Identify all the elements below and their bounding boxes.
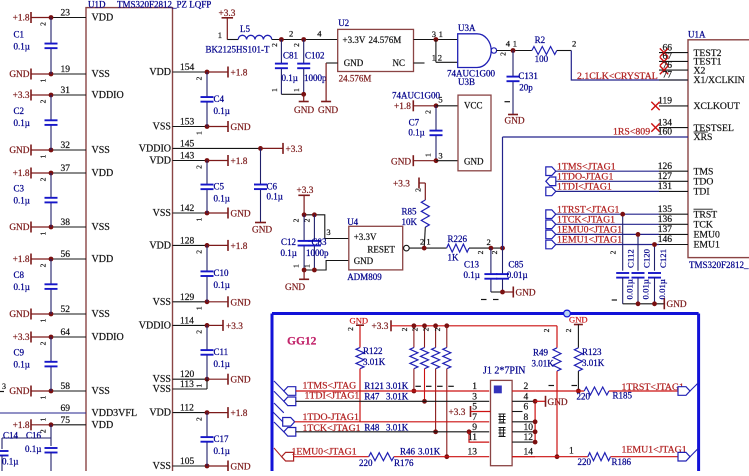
svg-text:VSS: VSS: [92, 309, 110, 320]
capacitor C85 0.01u: [502, 248, 504, 274]
svg-text:2: 2: [609, 250, 618, 254]
resistor R185 220: [584, 387, 609, 395]
wire oscillator input net: [272, 39, 338, 41]
capacitor C83 1000p: [313, 215, 315, 241]
svg-text:3: 3: [2, 382, 6, 391]
no-connect X mark: [660, 66, 668, 74]
pin 77 X1/XCLKIN of U1A: [659, 79, 688, 81]
svg-text:U1A: U1A: [688, 29, 706, 39]
svg-text:C10: C10: [214, 268, 230, 278]
svg-text:GND: GND: [231, 376, 251, 386]
sheet symbol GG12 border: [272, 312, 699, 315]
svg-text:4: 4: [317, 29, 322, 39]
svg-text:TDI: TDI: [694, 187, 710, 198]
port TDI inside GG12: [274, 391, 284, 401]
ground symbol for C131: [508, 114, 518, 116]
svg-text:C14: C14: [3, 431, 19, 441]
svg-text:20p: 20p: [519, 83, 533, 93]
pin 134 TESTSEL of U1A: [659, 127, 688, 129]
svg-text:C120: C120: [642, 248, 652, 268]
svg-text:VSS: VSS: [153, 122, 171, 133]
wire R226 to XRS node: [469, 247, 503, 249]
svg-text:C11: C11: [214, 347, 229, 357]
svg-text:GND: GND: [516, 289, 536, 299]
svg-text:R123: R123: [582, 347, 602, 357]
svg-text:VDD: VDD: [149, 240, 171, 251]
svg-text:VDDIO: VDDIO: [92, 332, 124, 343]
svg-text:VSS: VSS: [153, 461, 171, 471]
power symbol +1.8: [30, 168, 32, 179]
svg-text:C85: C85: [508, 259, 524, 269]
resistor R47 3.01K pullup: [422, 323, 427, 328]
svg-text:R226: R226: [448, 234, 468, 244]
svg-text:+1.8: +1.8: [231, 69, 248, 79]
resistor R226 1K: [447, 244, 469, 252]
svg-text:2: 2: [346, 327, 355, 331]
svg-text:VDDIO: VDDIO: [92, 90, 124, 101]
svg-text:R47: R47: [364, 391, 380, 401]
svg-text:58: 58: [61, 382, 71, 392]
svg-text:U1D: U1D: [88, 0, 106, 10]
svg-text:1: 1: [39, 154, 48, 158]
capacitor C10 0.1u: [206, 245, 208, 271]
svg-text:GND: GND: [231, 298, 251, 308]
svg-text:1: 1: [39, 318, 48, 322]
svg-text:2: 2: [195, 76, 204, 80]
capacitor C16 0.1u: [50, 425, 52, 446]
pin 38 VSS of U1D: [31, 226, 51, 228]
svg-text:C16: C16: [26, 431, 42, 441]
wire jtag net: [556, 180, 659, 182]
svg-text:127: 127: [658, 172, 673, 182]
svg-text:VDD3VFL: VDD3VFL: [92, 408, 138, 419]
svg-text:C131: C131: [518, 71, 538, 81]
svg-text:C12: C12: [281, 237, 296, 247]
svg-text:U4: U4: [347, 217, 358, 227]
IC U1A TMS320F2812: [688, 40, 749, 258]
pin 160 XRS of U1A: [659, 136, 688, 138]
svg-text:126: 126: [658, 162, 673, 172]
svg-text:VSS: VSS: [92, 145, 110, 156]
svg-text:7: 7: [472, 413, 477, 423]
svg-text:R49: R49: [533, 347, 549, 357]
power symbol GND: [227, 374, 229, 385]
svg-text:2: 2: [542, 328, 551, 332]
svg-text:24.576M: 24.576M: [369, 35, 402, 45]
no-connect X mark: [651, 102, 659, 110]
svg-text:GND: GND: [252, 226, 272, 236]
wire TCK row to J1 pin9: [296, 431, 489, 433]
svg-text:0.1µ: 0.1µ: [214, 446, 230, 456]
no-connect X mark: [651, 123, 659, 131]
wire U2 output to gate inputs: [414, 39, 458, 41]
svg-text:C9: C9: [14, 348, 25, 358]
pin 67 TEST1 of U1A: [659, 60, 688, 62]
chinese text inside J1: [499, 414, 506, 423]
port TMS JTAG1: [546, 167, 556, 176]
svg-text:131: 131: [658, 182, 673, 192]
svg-text:GND: GND: [294, 106, 314, 116]
svg-text:+1.8: +1.8: [231, 157, 248, 167]
svg-text:C83: C83: [312, 237, 328, 247]
wire TMS row to J1 pin1: [296, 390, 489, 392]
svg-text:2: 2: [420, 237, 424, 247]
svg-text:1: 1: [39, 417, 48, 421]
svg-text:VDD: VDD: [92, 168, 114, 179]
reset supervisor U4 ADM809: [349, 226, 403, 270]
svg-text:3.01K: 3.01K: [386, 391, 409, 401]
svg-text:+3.3: +3.3: [449, 408, 466, 418]
power symbol +1.8: [227, 240, 229, 251]
svg-text:VDD: VDD: [149, 408, 171, 419]
resistor R2 100: [532, 47, 557, 55]
svg-text:GND: GND: [667, 300, 687, 310]
svg-text:R48: R48: [364, 423, 380, 433]
svg-text:+3.3V: +3.3V: [343, 35, 366, 45]
svg-text:220: 220: [578, 457, 592, 467]
U2 NC stub: [414, 62, 425, 64]
svg-text:+3.3: +3.3: [393, 180, 410, 190]
svg-text:0.1µ: 0.1µ: [281, 248, 297, 258]
svg-text:GND: GND: [9, 146, 29, 156]
no-connect X mark: [660, 57, 668, 65]
svg-text:136: 136: [658, 215, 673, 225]
capacitor C4 0.1u: [206, 72, 208, 97]
svg-text:11: 11: [468, 433, 477, 443]
resistor R122 3.01K: [359, 325, 361, 347]
svg-text:2: 2: [289, 29, 293, 39]
svg-text:2: 2: [195, 330, 204, 334]
pin 32 VSS of U1D: [31, 149, 51, 151]
svg-text:2: 2: [411, 327, 420, 331]
svg-text:C102: C102: [305, 50, 325, 60]
svg-text:L5: L5: [240, 24, 250, 34]
pin 64 VDDIO of U1D: [31, 336, 51, 338]
svg-text:3.01K: 3.01K: [418, 447, 441, 457]
svg-text:0.1µ: 0.1µ: [282, 73, 298, 83]
wire EMU1 row J1 pin14 to R186: [512, 456, 588, 458]
power symbol GND: [30, 386, 32, 397]
svg-text:135: 135: [658, 205, 673, 215]
pin 37 VDD of U1D: [31, 172, 51, 174]
svg-text:VCC: VCC: [464, 101, 483, 111]
no-connect X mark: [660, 48, 668, 56]
svg-text:146: 146: [658, 235, 673, 245]
svg-text:+3.3: +3.3: [13, 91, 30, 101]
svg-text:0.01µ: 0.01µ: [507, 270, 528, 280]
U2 GND pin wire and ground: [326, 62, 338, 64]
svg-text:3.01K: 3.01K: [386, 381, 409, 391]
svg-text:GND: GND: [231, 123, 251, 133]
svg-text:2: 2: [433, 327, 442, 331]
svg-text:2: 2: [39, 177, 48, 181]
svg-text:0.1µ: 0.1µ: [25, 444, 41, 454]
power symbol +1.8: [227, 407, 229, 418]
wire TRST row J1 pin2 to R185: [535, 390, 584, 392]
svg-text:+1.8: +1.8: [231, 409, 248, 419]
svg-text:+1.8: +1.8: [394, 102, 411, 112]
svg-text:1EMU1<JTAG1: 1EMU1<JTAG1: [622, 445, 687, 456]
svg-text:2: 2: [39, 99, 48, 103]
svg-text:ADM809: ADM809: [347, 272, 382, 282]
power symbol GND: [30, 69, 32, 80]
svg-text:1: 1: [292, 88, 301, 92]
svg-text:2: 2: [292, 43, 301, 47]
wire reset output: [409, 247, 446, 249]
pin 119 XCLKOUT of U1A: [659, 105, 688, 107]
wire XRS net to pin160: [503, 136, 689, 138]
capacitor C120 0.01u: [637, 234, 639, 270]
svg-text:3: 3: [438, 150, 442, 160]
wire caps gnd rail: [491, 291, 503, 293]
svg-text:GND: GND: [9, 70, 29, 80]
pin 76 X2 of U1A: [659, 69, 688, 71]
svg-text:2: 2: [487, 237, 491, 247]
svg-text:1: 1: [270, 88, 279, 92]
wire jtag net: [556, 190, 659, 192]
power symbol +1.8: [227, 155, 229, 166]
gate output wire: [497, 50, 532, 52]
capacitor C112 0.01u: [622, 214, 624, 271]
svg-text:R85: R85: [402, 207, 418, 217]
resistor R85 10K: [421, 200, 429, 227]
pin 127 TDO of U1A: [659, 180, 688, 182]
svg-text:1: 1: [195, 131, 204, 135]
svg-text:C13: C13: [464, 259, 480, 269]
ground symbol for C81/C102: [303, 94, 305, 101]
power symbol GND: [227, 296, 229, 307]
svg-text:C17: C17: [214, 434, 230, 444]
svg-text:74AUC1G00: 74AUC1G00: [392, 90, 441, 100]
power symbol GND: [30, 145, 32, 156]
svg-text:6: 6: [524, 403, 529, 413]
svg-text:U3A: U3A: [458, 23, 476, 33]
svg-text:0.1µ: 0.1µ: [14, 118, 30, 128]
wire caps gnd rail: [623, 303, 665, 305]
svg-text:EMU1: EMU1: [694, 240, 721, 251]
capacitor C8 0.1u: [50, 259, 52, 284]
svg-text:56: 56: [61, 250, 71, 260]
svg-text:137: 137: [658, 225, 673, 235]
svg-text:1TDI<JTAG1: 1TDI<JTAG1: [305, 391, 360, 402]
svg-text:37: 37: [61, 164, 71, 174]
svg-text:0.1µ: 0.1µ: [408, 128, 424, 138]
svg-text:3: 3: [472, 392, 477, 402]
ground symbol J1 pin4: [535, 400, 545, 402]
svg-text:100: 100: [535, 54, 549, 64]
svg-text:0.01µ: 0.01µ: [657, 279, 667, 299]
svg-text:2: 2: [39, 263, 48, 267]
svg-text:3.01K: 3.01K: [363, 357, 386, 367]
svg-text:VDD: VDD: [92, 420, 114, 431]
capacitor C17 0.1u: [206, 413, 208, 437]
svg-text:X1/XCLKIN: X1/XCLKIN: [694, 75, 745, 86]
svg-text:2: 2: [39, 22, 48, 26]
resistor R186 220: [588, 453, 611, 461]
svg-text:0.01µ: 0.01µ: [625, 279, 635, 299]
svg-text:64: 64: [61, 328, 71, 338]
power symbol GND: [227, 208, 229, 219]
svg-text:1: 1: [303, 264, 312, 268]
svg-text:GND: GND: [285, 283, 305, 293]
pin 31 VDDIO of U1D: [31, 94, 51, 96]
svg-text:2: 2: [499, 52, 508, 56]
svg-text:1K: 1K: [448, 253, 460, 263]
wire jtag net: [556, 244, 659, 246]
ground symbol for C12/C83: [303, 270, 305, 279]
svg-text:VSS: VSS: [92, 69, 110, 80]
diagonal to border: [690, 383, 699, 392]
svg-text:1: 1: [513, 39, 517, 49]
svg-text:GND: GND: [9, 387, 29, 397]
svg-text:2: 2: [39, 341, 48, 345]
svg-text:2.1CLK<CRYSTAL: 2.1CLK<CRYSTAL: [577, 71, 658, 82]
svg-text:1: 1: [426, 237, 430, 247]
resistor R46 3.01K pullup: [444, 323, 449, 328]
svg-text:1: 1: [218, 30, 222, 40]
svg-text:VSS: VSS: [92, 222, 110, 233]
wire jtag net: [556, 233, 659, 235]
svg-text:0.1µ: 0.1µ: [14, 282, 30, 292]
svg-text:C2: C2: [14, 106, 25, 116]
port EMU1 right side: [678, 452, 690, 461]
ground symbol for C112/C120/C121: [663, 298, 665, 309]
port TMS inside GG12: [274, 381, 284, 391]
svg-text:3.01K: 3.01K: [532, 359, 555, 369]
resistor R121 3.01K pullup: [412, 323, 417, 328]
svg-text:C121: C121: [658, 249, 668, 268]
resistor R123 3.01K pulldown TRST: [577, 325, 579, 348]
pin 126 TMS of U1A: [659, 170, 688, 172]
svg-text:31: 31: [61, 86, 71, 96]
power symbol GND: [227, 461, 229, 472]
svg-text:220: 220: [577, 392, 591, 402]
svg-text:69: 69: [61, 404, 71, 414]
wire TDO row to J1 pin7: [295, 421, 490, 423]
power symbol +1.8: [227, 67, 229, 78]
wire J1 gnd pins chain: [534, 401, 536, 442]
svg-text:GND: GND: [505, 117, 525, 127]
wire TDI row to J1 pin3: [296, 400, 489, 402]
power symbol +1.8: [30, 12, 32, 23]
svg-text:R186: R186: [612, 457, 632, 467]
capacitor C131 20p: [512, 51, 514, 77]
pin 136 TCK of U1A: [659, 223, 688, 225]
svg-text:GND: GND: [9, 223, 29, 233]
svg-text:0.1µ: 0.1µ: [267, 192, 283, 202]
svg-text:C112: C112: [626, 249, 636, 268]
svg-text:1TRST<JTAG1: 1TRST<JTAG1: [622, 382, 685, 393]
svg-text:9: 9: [472, 423, 477, 433]
wire jtag net: [556, 213, 659, 215]
port TCK JTAG1: [546, 220, 556, 229]
svg-text:0.1µ: 0.1µ: [214, 193, 230, 203]
svg-text:160: 160: [658, 128, 673, 138]
svg-text:32: 32: [61, 141, 71, 151]
supply part U3B box: [458, 95, 491, 171]
svg-text:0.1µ: 0.1µ: [14, 41, 30, 51]
stray diagonal wire: [274, 403, 284, 413]
svg-text:1: 1: [195, 384, 204, 388]
pin 135 TRST of U1A: [659, 213, 688, 215]
power symbol +3.3: [30, 90, 32, 101]
port EMU JTAG1: [546, 230, 556, 239]
svg-text:C81: C81: [283, 50, 298, 60]
svg-text:1: 1: [39, 78, 48, 82]
wire TCK jog to J1 pin11: [469, 432, 489, 442]
svg-text:+1.8: +1.8: [13, 169, 30, 179]
svg-text:1: 1: [432, 52, 436, 62]
wire U4 gnd pin to caps: [304, 261, 349, 271]
power symbol GND: [30, 309, 32, 320]
port EMU0 inside GG12: [274, 448, 282, 457]
svg-text:2: 2: [572, 39, 576, 49]
svg-text:75: 75: [61, 416, 71, 426]
capacitor C5 0.1u: [206, 161, 208, 185]
capacitor C14 0.1u: [2, 437, 51, 439]
svg-text:13: 13: [468, 448, 478, 458]
svg-text:2: 2: [195, 165, 204, 169]
svg-text:2: 2: [424, 110, 433, 114]
svg-text:19: 19: [61, 65, 71, 75]
svg-text:+1.8: +1.8: [13, 421, 30, 431]
svg-text:1: 1: [472, 382, 477, 392]
svg-text:2: 2: [292, 218, 301, 222]
wire R2 to X1/XCLKIN: [557, 50, 572, 52]
svg-text:1: 1: [424, 153, 433, 157]
svg-text:1: 1: [195, 306, 204, 310]
pin 23 VDD of U1D: [31, 17, 51, 19]
svg-text:2: 2: [438, 52, 442, 62]
capacitor C2 0.1u: [50, 95, 52, 120]
svg-text:R176: R176: [394, 458, 414, 468]
svg-text:C6: C6: [267, 182, 278, 192]
pin 19 VSS of U1D: [31, 73, 51, 75]
svg-text:TMS320F2812_PZ LQFP: TMS320F2812_PZ LQFP: [117, 0, 211, 10]
svg-text:2: 2: [564, 328, 573, 332]
capacitor C3 0.1u: [50, 173, 52, 197]
svg-text:3.01K: 3.01K: [582, 358, 605, 368]
diagonal to border: [690, 448, 699, 457]
svg-text:GND: GND: [9, 310, 29, 320]
wire R186 to EMU1 port: [611, 456, 679, 458]
svg-text:XRS: XRS: [694, 132, 713, 143]
svg-text:J1 2*7PIN: J1 2*7PIN: [483, 366, 526, 377]
svg-text:2: 2: [195, 250, 204, 254]
svg-text:VDD: VDD: [149, 67, 171, 78]
power symbol +3.3: [30, 332, 32, 343]
capacitor C7 0.1u: [435, 106, 437, 130]
svg-text:2: 2: [195, 417, 204, 421]
svg-text:GND: GND: [569, 314, 588, 324]
svg-text:3.01K: 3.01K: [386, 423, 409, 433]
wire XRS vertical net: [502, 137, 504, 248]
svg-text:GND: GND: [354, 256, 374, 266]
svg-text:+3.3: +3.3: [286, 145, 303, 155]
wire R176 to J1 pin13: [394, 456, 489, 458]
pin 137 EMU0 of U1A: [659, 233, 688, 235]
svg-text:VSS: VSS: [153, 384, 171, 395]
power symbol +1.8: [30, 419, 32, 430]
svg-text:VDD: VDD: [149, 156, 171, 167]
svg-text:VDDIO: VDDIO: [139, 143, 171, 154]
pin 52 VSS of U1D: [31, 313, 51, 315]
svg-text:23: 23: [61, 9, 71, 19]
svg-text:GND: GND: [231, 463, 251, 472]
svg-text:GND: GND: [231, 210, 251, 220]
svg-text:VSS: VSS: [92, 386, 110, 397]
svg-text:1000p: 1000p: [304, 73, 327, 83]
